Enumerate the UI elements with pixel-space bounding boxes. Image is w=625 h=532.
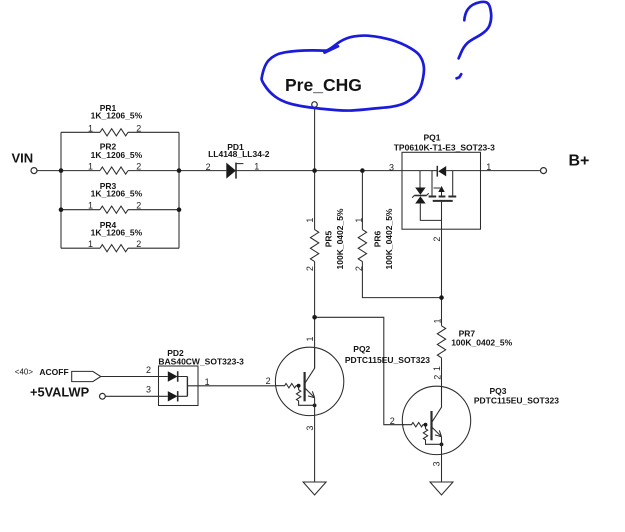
svg-text:PQ3: PQ3 [489, 386, 506, 396]
svg-text:1: 1 [305, 336, 315, 341]
svg-text:2: 2 [354, 266, 364, 271]
svg-text:1: 1 [88, 239, 93, 249]
svg-text:1: 1 [88, 201, 93, 211]
svg-text:Pre_CHG: Pre_CHG [285, 75, 362, 95]
svg-text:2: 2 [136, 123, 141, 133]
svg-text:PR6: PR6 [372, 230, 382, 247]
svg-text:1: 1 [486, 162, 491, 172]
svg-text:1K_1206_5%: 1K_1206_5% [91, 189, 143, 199]
svg-text:TP0610K-T1-E3_SOT23-3: TP0610K-T1-E3_SOT23-3 [394, 142, 495, 152]
svg-text:2: 2 [146, 365, 151, 375]
svg-text:1K_1206_5%: 1K_1206_5% [91, 111, 143, 121]
svg-text:PR5: PR5 [324, 230, 334, 247]
svg-text:2: 2 [432, 375, 442, 380]
svg-text:1K_1206_5%: 1K_1206_5% [91, 228, 143, 238]
svg-text:1K_1206_5%: 1K_1206_5% [91, 150, 143, 160]
svg-text:1: 1 [432, 366, 442, 371]
svg-text:1: 1 [205, 377, 210, 387]
svg-text:PDTC115EU_SOT323: PDTC115EU_SOT323 [345, 355, 430, 365]
svg-text:3: 3 [431, 461, 441, 466]
svg-text:2: 2 [136, 201, 141, 211]
svg-text:2: 2 [206, 162, 211, 172]
svg-text:B+: B+ [569, 153, 590, 170]
svg-text:100K_0402_5%: 100K_0402_5% [451, 337, 512, 347]
svg-text:2: 2 [432, 237, 442, 242]
svg-text:1: 1 [254, 162, 259, 172]
svg-text:PQ2: PQ2 [353, 344, 370, 354]
svg-text:BAS40CW_SOT323-3: BAS40CW_SOT323-3 [158, 356, 244, 366]
svg-text:1: 1 [88, 162, 93, 172]
svg-text:ACOFF: ACOFF [39, 367, 68, 377]
svg-text:2: 2 [136, 239, 141, 249]
svg-text:1: 1 [354, 218, 364, 223]
svg-text:+5VALWP: +5VALWP [30, 384, 90, 399]
svg-text:PDTC115EU_SOT323: PDTC115EU_SOT323 [474, 395, 559, 405]
svg-text:<40>: <40> [15, 367, 34, 376]
svg-text:PQ1: PQ1 [423, 133, 440, 143]
svg-text:LL4148_LL34-2: LL4148_LL34-2 [208, 149, 270, 159]
svg-text:1: 1 [432, 318, 442, 323]
svg-text:1: 1 [88, 123, 93, 133]
svg-text:3: 3 [305, 426, 315, 431]
svg-text:2: 2 [136, 162, 141, 172]
svg-text:100K_0402_5%: 100K_0402_5% [335, 208, 345, 269]
svg-text:2: 2 [305, 266, 315, 271]
svg-text:100K_0402_5%: 100K_0402_5% [384, 208, 394, 269]
svg-text:VIN: VIN [12, 151, 34, 166]
svg-text:1: 1 [305, 218, 315, 223]
svg-text:2: 2 [266, 376, 271, 386]
svg-text:3: 3 [146, 385, 151, 395]
svg-text:3: 3 [389, 162, 394, 172]
svg-text:2: 2 [390, 416, 395, 426]
